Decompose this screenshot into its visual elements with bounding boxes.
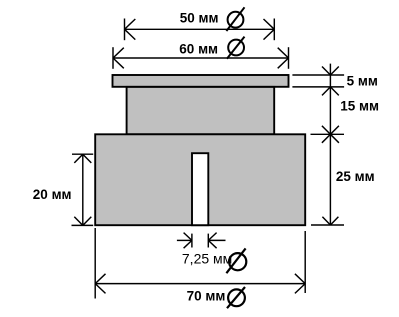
tick at slot left edge [191, 234, 193, 248]
arrow pointing right at slot left edge [184, 233, 192, 249]
arrow pointing left at slot right edge [208, 233, 216, 249]
double arrow X at base top [322, 126, 339, 143]
arrow at base bottom (barbs up) [322, 217, 338, 225]
7.25 mm dimension right segment [208, 239, 225, 241]
diameter symbol for 70 mm [227, 287, 245, 308]
svg-text:20 мм: 20 мм [33, 187, 72, 202]
arrow bottom of 20 mm (barbs up) [74, 217, 91, 226]
boss (middle step, 50 mm wide, 15 mm tall) [127, 87, 275, 134]
tick at slot right edge [207, 234, 209, 248]
extension line at base top [311, 133, 345, 135]
dimension line 60 mm [113, 57, 289, 59]
arrow at flange bottom (barbs down) [322, 87, 339, 96]
right extension line of 70 mm [304, 231, 306, 293]
flange (top thin plate, 60 mm wide, 5 mm thick) [113, 75, 289, 87]
diameter symbol for 50 mm [226, 7, 244, 31]
base (bottom block, 70 mm wide, 25 mm tall) [95, 134, 305, 225]
dimension line 50 mm [125, 28, 275, 30]
arrow left of 70 mm dim [95, 274, 105, 294]
right vertical dimension line [329, 64, 331, 225]
extension line at base bottom [311, 224, 344, 226]
svg-text:25 мм: 25 мм [336, 169, 375, 184]
arrow left of 50 mm dim [125, 19, 136, 41]
arrow right of 50 mm dim [264, 19, 275, 41]
slot (7.25 mm slot, 20 mm deep) [192, 153, 208, 225]
svg-text:15 мм: 15 мм [340, 98, 379, 113]
arrow at flange top (barbs up) [322, 67, 339, 76]
svg-text:50 мм: 50 мм [180, 11, 219, 26]
70 mm dimension line [95, 283, 305, 285]
left extension line of 70 mm [94, 228, 96, 299]
arrow left of 60 mm dim [113, 47, 124, 69]
arrow right of 70 mm dim [295, 274, 305, 294]
arrow right of 60 mm dim [278, 47, 289, 69]
svg-text:70 мм: 70 мм [187, 288, 226, 303]
7.25 mm dimension left segment [177, 239, 192, 241]
extension tick at slot top level [72, 153, 93, 155]
svg-text:7,25 мм: 7,25 мм [182, 251, 232, 267]
extension line at flange bottom [292, 86, 344, 88]
svg-text:5 мм: 5 мм [347, 74, 378, 89]
diameter symbol for 7,25 mm [226, 248, 246, 273]
left vertical dimension line 20 mm (slot depth) [82, 154, 84, 225]
arrow top of 20 mm (barbs down) [74, 154, 91, 163]
extension tick at base bottom level [72, 224, 94, 226]
extension line at flange top [292, 74, 344, 76]
diameter symbol for 60 mm [227, 37, 245, 59]
svg-text:60 мм: 60 мм [179, 41, 218, 56]
